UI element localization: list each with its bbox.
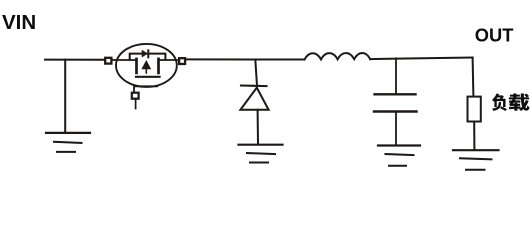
svg-text:OUT: OUT (475, 24, 514, 45)
transistor Q1 (P-MOSFET) body circle (116, 44, 177, 87)
wire load branch (472, 58, 475, 97)
capacitor C1 bottom plate (374, 110, 417, 112)
wire capacitor to ground (395, 112, 397, 145)
net label OUT (475, 24, 514, 45)
transistor Q1 substrate arrow (142, 61, 151, 73)
ground diode (239, 145, 283, 163)
transistor Q1 top bar with end ticks (130, 54, 166, 60)
wire switch node (185, 58, 304, 60)
terminal square right (Q1 drain pin) (179, 58, 185, 64)
wire output rail (370, 58, 472, 60)
net label VIN (2, 11, 36, 34)
wire Q1 internal left lead (112, 59, 137, 61)
load label 负载 (zai) (509, 94, 530, 112)
wire input rail (45, 59, 105, 61)
ground capacitor (378, 146, 420, 166)
wire diode to ground (257, 110, 259, 144)
wire load to ground (473, 122, 475, 150)
inductor L1 (305, 53, 371, 59)
wire capacitor branch (395, 58, 397, 93)
wire gate stub (135, 99, 137, 109)
resistor RL load (468, 97, 481, 122)
diode D1 cathode bar (241, 84, 267, 87)
svg-text:VIN: VIN (2, 11, 36, 34)
wire diode branch (255, 60, 257, 86)
terminal square gate pin (132, 93, 139, 99)
diode D1 triangle (240, 88, 268, 110)
transistor Q1 gate plate (136, 76, 160, 78)
transistor Q1 right contact bar (157, 59, 160, 73)
wire input ground branch (64, 60, 66, 132)
ground input (46, 133, 90, 152)
load label 负载 (fu) (492, 93, 507, 110)
transistor Q1 body diode (142, 50, 148, 57)
transistor Q1 gate lead (134, 86, 157, 92)
ground load (453, 150, 499, 170)
terminal square left (Q1 source pin) (105, 58, 111, 64)
wire Q1 internal right lead (159, 59, 178, 61)
capacitor C1 top plate (375, 93, 416, 95)
transistor Q1 left contact bar (135, 59, 138, 73)
